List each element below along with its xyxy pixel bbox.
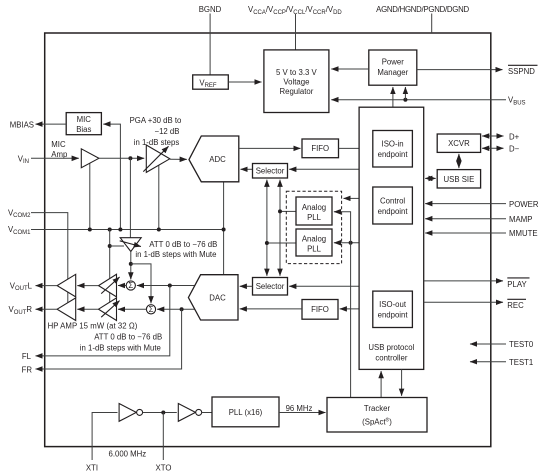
converter DAC	[188, 275, 238, 320]
wire PGA output to ADC	[170, 158, 187, 160]
wire VCOM1 rail	[31, 229, 224, 231]
pin MAMP	[425, 218, 506, 220]
pin PLAY (active low)	[424, 280, 503, 282]
svg-text:PLL: PLL	[307, 244, 322, 253]
pin XTI	[92, 413, 117, 461]
svg-text:MMUTE: MMUTE	[509, 229, 538, 238]
block MIC bias	[66, 113, 101, 135]
wire DAC R output to sum R	[157, 308, 195, 310]
svg-text:Power: Power	[382, 58, 405, 67]
wire control branch to analog PLL 1	[334, 212, 351, 243]
wire sum L to ATT L	[118, 285, 126, 287]
wire sidetone tap down to ATT	[129, 158, 131, 237]
svg-text:SSPND: SSPND	[508, 67, 535, 76]
inverter X1 bubble	[137, 409, 143, 415]
wire VREF to regulator	[228, 81, 261, 83]
svg-text:BGND: BGND	[199, 5, 222, 14]
wire ATT L to HP amp L	[77, 285, 98, 287]
wire VCOM2 to HP amps	[31, 213, 68, 303]
svg-text:Tracker: Tracker	[364, 404, 391, 413]
block analog PLL 1	[296, 197, 332, 225]
wire VCOM1 down to output attenuators	[109, 230, 111, 305]
wire VCC riser	[295, 14, 297, 50]
svg-text:Voltage: Voltage	[283, 78, 309, 87]
block ISO-out endpoint	[373, 291, 413, 327]
attenuator ATT R A5	[99, 298, 117, 321]
block selector 2	[253, 278, 288, 296]
pin SSPND (active low)	[417, 69, 503, 71]
wire XCVR to USB SIE	[458, 154, 460, 168]
wire sum R to ATT R	[118, 308, 146, 310]
converter ADC	[189, 136, 239, 182]
wire selector 2 to DAC	[240, 285, 253, 287]
wire VBUS to power manager	[404, 87, 406, 100]
svg-text:in 1-dB steps with Mute: in 1-dB steps with Mute	[80, 343, 161, 352]
pin TEST0	[470, 343, 506, 345]
wire AGND riser	[431, 14, 433, 34]
wire selector 1 to selector 2 right channel	[279, 180, 281, 276]
block ISO-in endpoint	[373, 131, 413, 168]
amplifier PGA A2	[146, 145, 170, 172]
svg-text:Regulator: Regulator	[279, 87, 313, 96]
svg-text:XTO: XTO	[156, 464, 172, 473]
svg-text:XTI: XTI	[86, 464, 98, 473]
node analog PLL 1 junction	[278, 209, 282, 213]
dashed analog PLL group box	[286, 191, 341, 263]
svg-text:Analog: Analog	[302, 234, 326, 243]
svg-text:Σ: Σ	[149, 305, 154, 314]
svg-text:PLAY: PLAY	[507, 280, 527, 289]
block power manager U-PM	[369, 50, 417, 85]
wire VCOM1 stub to sidetone ATT	[110, 245, 124, 247]
svg-text:USB protocol: USB protocol	[368, 343, 414, 352]
wire ATT R variable arrow	[101, 301, 119, 318]
wire PGA variable arrow	[143, 146, 168, 171]
svg-text:USB SIE: USB SIE	[444, 175, 475, 184]
svg-text:TEST1: TEST1	[509, 358, 533, 367]
block tracker SpAct	[327, 398, 427, 433]
block 5V to 3.3V voltage regulator	[264, 50, 329, 113]
wire sidetone ATT variable arrow	[120, 241, 141, 247]
node DAC L to FL junction	[168, 284, 172, 288]
svg-text:MIC: MIC	[51, 140, 66, 149]
block control endpoint	[373, 187, 413, 224]
node XTO junction	[161, 411, 165, 415]
svg-text:PGA +30 dB to: PGA +30 dB to	[130, 116, 182, 125]
svg-text:DAC: DAC	[209, 293, 226, 302]
wire analog PLL 2 output	[267, 242, 296, 244]
wire USB protocol controller to USB SIE	[425, 177, 436, 179]
summer sum R	[146, 305, 155, 314]
pin VBUS	[331, 99, 506, 101]
node sidetone branch junction	[129, 262, 133, 266]
wire MIC amp output to PGA	[99, 157, 144, 159]
svg-text:MIC: MIC	[77, 115, 92, 124]
svg-text:FIFO: FIFO	[311, 305, 329, 314]
wire PGA bias to VCOM1	[158, 162, 160, 230]
wire USB protocol controller to power manager	[392, 87, 394, 107]
svg-text:PLL: PLL	[307, 213, 322, 222]
amplifier HP amp L A6	[57, 274, 76, 297]
block USB protocol controller U1	[359, 107, 424, 369]
wire USB protocol controller to analog PLL 2	[334, 242, 359, 244]
pin FR	[36, 309, 182, 369]
wire sidetone ATT output to sum L	[130, 252, 132, 280]
svg-text:PLL (x16): PLL (x16)	[229, 408, 263, 417]
amplifier HP amp R A7	[57, 298, 76, 321]
node MIC amp output junction	[128, 156, 132, 160]
wire selector 1 to ADC	[241, 168, 253, 170]
pin D-	[482, 147, 503, 149]
svg-text:MBIAS: MBIAS	[10, 120, 34, 129]
svg-text:−12 dB: −12 dB	[155, 127, 180, 136]
wire inverter X2 to PLL	[202, 412, 212, 414]
block FIFO out	[302, 300, 338, 320]
wire ATT L variable arrow	[101, 277, 119, 294]
node analog PLL control junction	[349, 241, 353, 245]
inverter X2	[178, 404, 195, 422]
block FIFO in	[302, 139, 339, 158]
svg-text:D+: D+	[509, 132, 520, 141]
block PLL x16	[212, 397, 279, 427]
wire analog PLL 1 output	[280, 210, 296, 212]
wire power manager to regulator	[331, 68, 369, 70]
wire control branch down to tracker	[350, 243, 352, 398]
wire DAC L output to sum L	[137, 285, 195, 287]
attenuator sidetone ATT A3	[120, 238, 141, 252]
svg-text:FL: FL	[22, 352, 32, 361]
wire FIFO out to DAC	[240, 308, 302, 310]
pin D+	[482, 135, 503, 137]
wire USB protocol controller to selector 2	[289, 285, 359, 287]
pin POWER	[425, 203, 506, 205]
wire VCOM1 to MIC bias feedback	[103, 124, 120, 229]
pin VOUTR	[36, 308, 58, 310]
pin VOUTL	[36, 285, 58, 287]
pin REC (active low)	[424, 301, 503, 303]
svg-text:6.000 MHz: 6.000 MHz	[109, 450, 147, 459]
wire BGND riser	[209, 14, 211, 75]
svg-text:REC: REC	[507, 301, 524, 310]
block selector 1	[253, 164, 288, 179]
wire inverter X1 to inverter X2	[143, 412, 177, 414]
svg-text:ISO-in: ISO-in	[382, 140, 404, 149]
svg-text:Selector: Selector	[256, 167, 285, 176]
wire FIFO in to ISO-in endpoint	[339, 147, 372, 149]
wire USB protocol controller to PLL block	[344, 197, 360, 199]
wire tracker to USB protocol controller	[380, 371, 382, 397]
svg-text:Bias: Bias	[76, 125, 91, 134]
svg-text:POWER: POWER	[509, 200, 539, 209]
wire PLL to tracker 96 MHz	[279, 412, 326, 414]
inverter X1	[119, 404, 136, 422]
wire sidetone branch to sum R	[131, 264, 151, 303]
block XCVR	[437, 134, 480, 152]
svg-text:endpoint: endpoint	[378, 207, 409, 216]
node VBUS junction	[403, 98, 407, 102]
svg-text:ADC: ADC	[209, 155, 226, 164]
wire ADC to FIFO in	[239, 147, 301, 149]
svg-text:Control: Control	[380, 196, 405, 205]
block USB SIE	[437, 170, 480, 188]
svg-text:Amp: Amp	[51, 150, 68, 159]
chip outer border	[45, 33, 491, 447]
wire ATT R to HP amp R	[77, 308, 98, 310]
wire MIC amp bias to VCOM1	[89, 162, 91, 230]
wire USB protocol controller to tracker	[401, 369, 403, 395]
summer sum L	[126, 281, 135, 290]
svg-text:in 1-dB steps with Mute: in 1-dB steps with Mute	[135, 250, 216, 259]
svg-text:TEST0: TEST0	[509, 340, 534, 349]
node VCOM1 junctions	[88, 228, 92, 232]
svg-text:ATT 0 dB to −76 dB: ATT 0 dB to −76 dB	[149, 240, 217, 249]
pin FL	[36, 286, 170, 356]
svg-text:FR: FR	[22, 365, 33, 374]
wire ADC bottom to DAC top via VCOM1	[223, 182, 225, 275]
wire selector 1 to selector 2 left channel	[266, 180, 268, 276]
svg-text:Analog: Analog	[302, 203, 326, 212]
svg-text:XCVR: XCVR	[448, 139, 470, 148]
pin MMUTE	[425, 232, 506, 234]
node VCOM1 sidetone stub junction	[108, 244, 112, 248]
svg-text:Manager: Manager	[377, 68, 408, 77]
block analog PLL 2	[296, 229, 332, 256]
pin TEST1	[470, 361, 506, 363]
pin XTO	[162, 413, 164, 461]
node DAC R to FR junction	[180, 307, 184, 311]
svg-text:MAMP: MAMP	[509, 215, 532, 224]
node analog PLL 2 junction	[265, 241, 269, 245]
svg-text:in 1-dB steps: in 1-dB steps	[134, 138, 180, 147]
amplifier MIC amp A1	[81, 149, 99, 168]
svg-text:D−: D−	[509, 145, 520, 154]
attenuator ATT L A4	[99, 274, 117, 297]
svg-text:ISO-out: ISO-out	[379, 300, 407, 309]
svg-text:96 MHz: 96 MHz	[286, 404, 313, 413]
svg-text:ATT 0 dB to −76 dB: ATT 0 dB to −76 dB	[94, 333, 162, 342]
pin MBIAS	[36, 123, 67, 125]
svg-text:endpoint: endpoint	[378, 150, 409, 159]
wire ISO-out endpoint to FIFO out	[340, 308, 373, 310]
wire USB protocol controller to selector 1	[289, 168, 359, 170]
svg-text:Σ: Σ	[128, 281, 133, 290]
svg-text:endpoint: endpoint	[378, 311, 409, 320]
inverter X2 bubble	[196, 409, 202, 415]
svg-text:FIFO: FIFO	[311, 144, 329, 153]
svg-text:AGND/HGND/PGND/DGND: AGND/HGND/PGND/DGND	[376, 5, 469, 14]
svg-text:controller: controller	[375, 354, 407, 363]
svg-text:HP AMP 15 mW (at 32 Ω): HP AMP 15 mW (at 32 Ω)	[48, 321, 138, 330]
block VREF	[193, 75, 229, 89]
svg-text:Selector: Selector	[256, 282, 285, 291]
svg-text:5 V to 3.3 V: 5 V to 3.3 V	[276, 68, 318, 77]
